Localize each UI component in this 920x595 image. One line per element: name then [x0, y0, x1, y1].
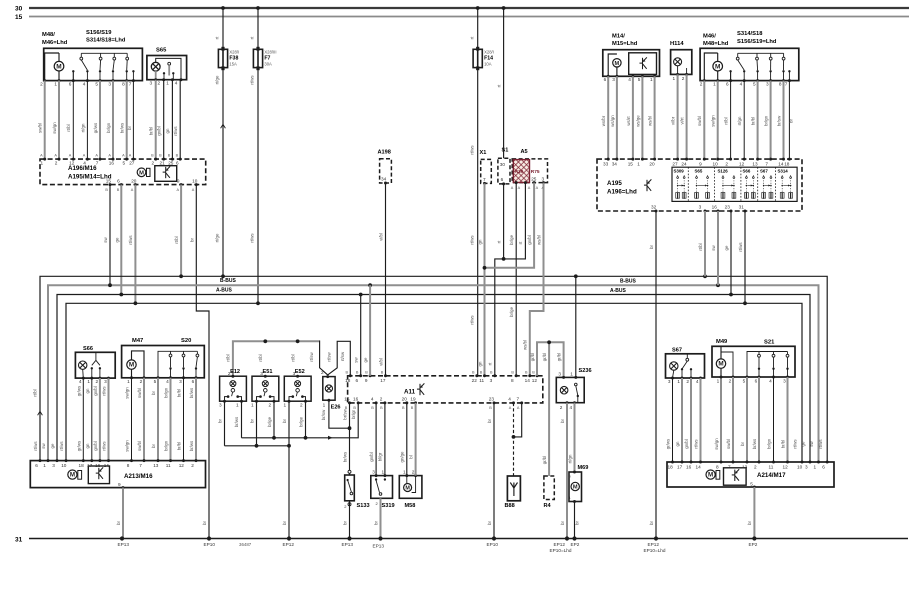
svg-text:15: 15	[106, 178, 112, 183]
svg-text:A: A	[536, 186, 539, 190]
wire A195 pin23 ge to bus line3	[730, 211, 732, 295]
svg-text:5: 5	[753, 81, 756, 86]
svg-text:gn/bl: gn/bl	[93, 441, 98, 451]
svg-text:M: M	[715, 63, 720, 70]
svg-text:rt/ws: rt/ws	[102, 441, 107, 451]
wires M48 to A196/M16	[44, 81, 46, 160]
svg-text:33: 33	[603, 162, 609, 167]
svg-text:1: 1	[166, 80, 169, 85]
svg-text:gr/bl: gr/bl	[542, 353, 547, 362]
svg-text:EP2: EP2	[571, 542, 580, 547]
svg-text:1: 1	[570, 371, 573, 376]
svg-text:10: 10	[192, 178, 198, 183]
svg-text:17: 17	[380, 378, 386, 383]
fuse F7 30A on connector X28/III	[257, 48, 259, 69]
svg-text:rt/gn: rt/gn	[737, 116, 742, 125]
A195 top pins	[607, 158, 610, 161]
svg-text:gr/ws: gr/ws	[93, 122, 98, 133]
svg-text:A198: A198	[378, 149, 391, 155]
svg-text:2: 2	[152, 160, 155, 165]
wire E26 pin2 to A11 pin18	[328, 341, 351, 376]
wire below fuse F38	[222, 69, 224, 276]
svg-text:14: 14	[525, 378, 531, 383]
svg-text:M46=Lhd: M46=Lhd	[42, 40, 68, 46]
svg-text:br: br	[202, 521, 207, 525]
svg-text:3: 3	[558, 371, 561, 376]
svg-text:br/bl: br/bl	[148, 127, 153, 136]
svg-text:E12: E12	[230, 369, 240, 375]
wire S236 pin2 br to ground EP12	[566, 403, 568, 539]
bus line3 ge from A213 pin3 to A214 pin3	[57, 295, 810, 463]
svg-text:30: 30	[500, 162, 506, 167]
svg-text:gn/bl: gn/bl	[369, 452, 374, 462]
svg-text:A214/M17: A214/M17	[757, 472, 786, 479]
svg-text:br/bl: br/bl	[750, 117, 755, 126]
svg-text:br/bl: br/bl	[177, 389, 182, 398]
svg-text:4: 4	[628, 77, 631, 82]
switch S133 hood contact	[349, 403, 351, 475]
svg-text:rt/gn: rt/gn	[567, 454, 572, 463]
wire E12 pin3 br to collect rail	[224, 401, 226, 446]
wire S236 pin4 rt/gn to motor M69	[574, 403, 576, 472]
svg-text:gn/bl: gn/bl	[93, 386, 98, 396]
svg-text:10A: 10A	[484, 62, 492, 67]
svg-text:1: 1	[677, 379, 680, 384]
svg-text:ws/bl: ws/bl	[536, 235, 541, 245]
svg-text:A: A	[517, 406, 520, 410]
switch S65 mirror select	[147, 56, 187, 80]
svg-text:sw/bl: sw/bl	[137, 441, 142, 451]
svg-text:1: 1	[650, 77, 653, 82]
svg-text:rt/bl: rt/bl	[174, 236, 179, 243]
wires M47/S20 to A213	[131, 378, 133, 461]
svg-text:gn: gn	[165, 128, 170, 133]
wires S65 to A196/M16	[155, 80, 157, 159]
wire E51 pin2 br/ge	[273, 401, 275, 438]
svg-text:25: 25	[531, 177, 537, 182]
wires H114 to A195	[677, 74, 679, 159]
connector S1 ignition switch	[498, 158, 510, 184]
svg-text:2: 2	[140, 379, 143, 384]
svg-text:B: B	[353, 406, 356, 410]
svg-text:R39: R39	[515, 169, 524, 175]
svg-text:9: 9	[365, 378, 368, 383]
svg-text:br: br	[116, 521, 121, 525]
svg-text:17: 17	[87, 463, 93, 468]
svg-text:2: 2	[191, 463, 194, 468]
svg-text:2: 2	[228, 371, 231, 376]
svg-text:B: B	[176, 153, 179, 157]
wire M69 pin1 br to ground EP2	[574, 502, 576, 539]
svg-text:br/gr: br/gr	[351, 409, 356, 419]
svg-text:16: 16	[686, 465, 692, 470]
svg-text:4: 4	[79, 379, 82, 384]
wire A196 pin15 sw to bus line2	[109, 185, 111, 286]
chevron on bus drop wire	[38, 411, 43, 415]
svg-text:S314: S314	[778, 169, 789, 174]
svg-text:rt/bl: rt/bl	[698, 243, 703, 250]
wires S67 to A214	[672, 378, 674, 462]
svg-text:S67: S67	[760, 169, 768, 174]
svg-text:3: 3	[490, 378, 493, 383]
wire S319 pin2 to ground EP13	[380, 498, 382, 538]
ground rail terminal-31	[29, 538, 908, 540]
svg-text:br/gn: br/gn	[106, 122, 111, 133]
wires A11 pins 20,19 to M58	[406, 403, 408, 476]
bus junction dots	[179, 274, 183, 278]
svg-text:8: 8	[127, 463, 130, 468]
svg-text:6: 6	[176, 160, 179, 165]
svg-text:B: B	[411, 406, 414, 410]
svg-text:ws/rt: ws/rt	[626, 116, 631, 126]
svg-text:EP10: EP10	[204, 542, 216, 547]
ground junctions and labels	[120, 536, 124, 540]
svg-text:rt/bl: rt/bl	[723, 117, 728, 124]
lamp E12 front interior light	[220, 376, 247, 401]
svg-text:sw/gn: sw/gn	[125, 440, 130, 452]
svg-text:M69: M69	[578, 465, 589, 471]
svg-text:7: 7	[517, 397, 520, 402]
svg-text:E51: E51	[263, 369, 273, 375]
svg-text:17: 17	[677, 465, 683, 470]
svg-text:18: 18	[784, 162, 790, 167]
A195 bottom pins	[655, 210, 658, 213]
svg-text:A213/M16: A213/M16	[124, 473, 153, 480]
svg-text:14: 14	[104, 463, 110, 468]
svg-text:EP10=Lhd: EP10=Lhd	[644, 548, 666, 553]
svg-text:E52: E52	[295, 369, 305, 375]
svg-text:A: A	[108, 153, 111, 157]
wire rail30 to S1 pin30	[502, 6, 506, 10]
svg-text:EP12: EP12	[648, 542, 660, 547]
svg-text:ge: ge	[801, 441, 806, 446]
svg-text:1: 1	[323, 402, 326, 407]
svg-text:B: B	[159, 153, 162, 157]
wires M14 to A195	[607, 76, 609, 159]
wire A11 pin23 br to ground EP10	[493, 403, 495, 539]
svg-text:X1: X1	[480, 150, 487, 156]
svg-text:M: M	[129, 362, 134, 369]
svg-text:rt/bl: rt/bl	[290, 354, 295, 361]
svg-text:gn/bl: gn/bl	[684, 439, 689, 449]
svg-text:A: A	[122, 153, 125, 157]
motor M47 with switch S20 window lifter rear left	[122, 346, 205, 378]
svg-text:rt/ws: rt/ws	[33, 441, 38, 451]
svg-text:7: 7	[483, 177, 486, 182]
svg-text:rt/gn: rt/gn	[80, 123, 85, 132]
wire A195 pin31 rt/ws to bus line4	[744, 211, 746, 303]
wire A11 pin4 dashed to antenna B88	[513, 403, 515, 476]
svg-text:5: 5	[638, 77, 641, 82]
svg-text:A: A	[518, 186, 521, 190]
svg-text:1: 1	[127, 379, 130, 384]
wire from rail 30 to fuse F38	[221, 6, 225, 10]
svg-text:6: 6	[755, 378, 758, 383]
motor M49 with switch S21 window lifter rear right	[712, 346, 795, 377]
wires M46/S314 to A195	[703, 81, 705, 160]
A213 bottom pin 9 wire br to ground EP13	[122, 486, 125, 489]
control unit A11 central locking	[348, 376, 543, 403]
svg-text:br: br	[740, 442, 745, 446]
A11 bottom pins	[348, 401, 351, 404]
A196 top pins	[43, 158, 46, 161]
svg-text:X28/III: X28/III	[264, 50, 276, 55]
svg-text:X28/I: X28/I	[229, 50, 239, 55]
svg-text:S1: S1	[502, 148, 509, 154]
svg-text:rt/sw: rt/sw	[309, 352, 314, 362]
svg-text:EP12: EP12	[283, 542, 295, 547]
svg-text:gr/bl: gr/bl	[530, 353, 535, 362]
svg-text:M48/: M48/	[42, 32, 55, 38]
svg-text:M58: M58	[405, 503, 416, 509]
svg-text:15: 15	[628, 162, 634, 167]
svg-text:br: br	[189, 238, 194, 242]
A11 top pins	[349, 374, 352, 377]
svg-text:1: 1	[717, 378, 720, 383]
svg-text:A196=Lhd: A196=Lhd	[607, 189, 637, 196]
svg-text:br/ws: br/ws	[234, 416, 239, 427]
wire terminal-15 rail	[29, 16, 909, 18]
svg-text:sw/bl: sw/bl	[697, 116, 702, 126]
svg-text:sw: sw	[353, 356, 358, 362]
svg-text:M: M	[718, 361, 723, 368]
svg-text:1: 1	[54, 81, 57, 86]
svg-text:20: 20	[649, 162, 655, 167]
svg-text:rt/ws: rt/ws	[694, 439, 699, 449]
wire below fuse F14	[477, 69, 479, 376]
svg-text:16: 16	[95, 463, 101, 468]
wire A195 pin32 br to ground EP12	[655, 211, 657, 539]
svg-text:S236: S236	[579, 368, 592, 374]
svg-text:24: 24	[681, 162, 687, 167]
svg-text:M47: M47	[132, 338, 143, 344]
svg-text:16: 16	[712, 205, 718, 210]
svg-text:2: 2	[560, 405, 563, 410]
svg-text:1: 1	[41, 160, 44, 165]
svg-text:S66: S66	[83, 346, 93, 352]
svg-text:A5: A5	[521, 149, 528, 155]
svg-text:A: A	[95, 153, 98, 157]
svg-text:B-BUS: B-BUS	[620, 278, 636, 284]
svg-text:br/ws: br/ws	[189, 387, 194, 398]
wires S66 to A213	[82, 378, 84, 461]
svg-text:rt/ws: rt/ws	[469, 145, 474, 155]
svg-text:bl/gr: bl/gr	[378, 452, 383, 461]
switch S66 mirror select left	[75, 352, 115, 378]
svg-text:3: 3	[783, 378, 786, 383]
svg-text:br/gn: br/gn	[763, 115, 768, 126]
svg-text:8: 8	[716, 465, 719, 470]
svg-text:1: 1	[673, 76, 676, 81]
svg-text:12: 12	[179, 463, 185, 468]
svg-text:ws/bl: ws/bl	[648, 116, 653, 126]
lamp E52 rear interior light right	[284, 376, 311, 401]
svg-text:S314/S18=Lhd: S314/S18=Lhd	[86, 38, 126, 44]
svg-text:A-BUS: A-BUS	[216, 288, 232, 294]
svg-text:sw/bl: sw/bl	[726, 439, 731, 449]
svg-text:br: br	[217, 419, 222, 423]
svg-text:12: 12	[783, 465, 789, 470]
svg-text:6: 6	[117, 178, 120, 183]
svg-text:br/ws: br/ws	[342, 451, 347, 462]
svg-text:11: 11	[166, 463, 171, 468]
svg-text:5: 5	[750, 481, 753, 486]
lamp E26 glovebox light	[323, 377, 335, 401]
svg-text:gr/ws: gr/ws	[76, 440, 81, 451]
svg-text:br: br	[649, 521, 654, 525]
svg-text:br: br	[282, 419, 287, 423]
svg-text:ge: ge	[50, 443, 55, 448]
svg-text:S309: S309	[674, 169, 685, 174]
svg-text:rt/bl: rt/bl	[226, 354, 231, 361]
svg-text:rt/ws: rt/ws	[250, 233, 255, 243]
svg-text:6: 6	[69, 81, 72, 86]
wire A11 pin12 to S236 pin3 rail	[537, 342, 564, 377]
svg-text:ge: ge	[724, 245, 729, 250]
wire X1 pin7 gn down to A11 pin11	[483, 182, 486, 185]
svg-text:3: 3	[104, 379, 107, 384]
A214 bottom pin5 wire br to ground EP2	[753, 486, 756, 489]
wire A196 pin9 rt/bl to bus line1	[180, 185, 182, 277]
svg-text:br: br	[151, 391, 156, 395]
wire S133 to ground EP13	[349, 501, 351, 539]
svg-text:S66: S66	[743, 169, 751, 174]
svg-text:6: 6	[192, 379, 195, 384]
svg-text:M: M	[405, 486, 410, 492]
svg-text:22: 22	[472, 378, 478, 383]
motor M14 / M15=Lhd mirror passenger door	[603, 50, 660, 77]
svg-text:6: 6	[35, 463, 38, 468]
svg-text:br/sw: br/sw	[342, 408, 347, 419]
wire below fuse F7	[257, 69, 259, 303]
svg-text:30A: 30A	[264, 62, 272, 67]
wire A5 br/ge to A11 pin8	[515, 181, 518, 184]
connector X1	[481, 159, 492, 183]
svg-text:gr/bl: gr/bl	[542, 456, 547, 465]
svg-text:S126: S126	[718, 169, 729, 174]
svg-text:2: 2	[55, 160, 58, 165]
svg-text:A: A	[54, 153, 57, 157]
svg-text:34: 34	[612, 162, 618, 167]
svg-text:13: 13	[742, 465, 748, 470]
wire E26 pin1 to S133 net	[329, 400, 350, 428]
svg-text:23: 23	[489, 397, 495, 402]
svg-text:br/ge: br/ge	[509, 234, 514, 245]
svg-text:EP10=Lhd: EP10=Lhd	[550, 548, 572, 553]
control unit A213/M16 mirror driver side	[30, 461, 205, 488]
svg-text:M: M	[70, 472, 75, 479]
svg-text:S65: S65	[156, 48, 167, 54]
svg-text:sw/gn: sw/gn	[711, 115, 716, 127]
svg-text:10: 10	[797, 465, 803, 470]
svg-text:3: 3	[612, 77, 615, 82]
svg-text:M: M	[56, 63, 61, 70]
svg-text:12: 12	[69, 160, 75, 165]
svg-text:36487: 36487	[239, 542, 252, 547]
svg-text:br: br	[151, 444, 156, 448]
wire from rail 30 to fuse F14	[476, 6, 480, 10]
svg-text:M: M	[573, 485, 578, 491]
svg-text:br/bl: br/bl	[781, 440, 786, 449]
svg-text:EP13: EP13	[373, 543, 385, 548]
wire A5 gn/bl bends left joins X1 wire	[485, 183, 535, 268]
svg-text:bl: bl	[408, 455, 413, 458]
svg-text:8: 8	[511, 378, 514, 383]
svg-text:ws/gn: ws/gn	[610, 115, 615, 127]
svg-text:4: 4	[508, 397, 511, 402]
svg-text:gn: gn	[477, 239, 482, 244]
svg-text:3: 3	[766, 81, 769, 86]
collect rail br/ws to A11 pin16	[242, 403, 359, 438]
svg-text:A-BUS: A-BUS	[610, 288, 626, 294]
svg-text:3: 3	[805, 465, 808, 470]
svg-text:EP13: EP13	[118, 542, 130, 547]
svg-text:15: 15	[344, 397, 350, 402]
svg-text:2: 2	[725, 162, 728, 167]
svg-text:21: 21	[160, 160, 166, 165]
motor M58 fuel flap lock	[399, 476, 422, 499]
svg-text:rt/ws: rt/ws	[793, 439, 798, 449]
svg-text:M14/: M14/	[612, 34, 625, 40]
svg-text:rt/ws: rt/ws	[250, 75, 255, 85]
bus line2 sw (gray) from A213 pin1 to A214 pin1	[48, 285, 819, 462]
wire A196 pin20 rt/ws to bus line4	[134, 185, 136, 304]
svg-text:7: 7	[129, 81, 132, 86]
svg-text:1: 1	[403, 469, 406, 474]
wire E51 pin1 br	[256, 401, 258, 446]
svg-text:27: 27	[129, 160, 135, 165]
svg-text:19: 19	[410, 397, 416, 402]
svg-text:S67: S67	[672, 348, 682, 354]
svg-text:6: 6	[356, 378, 359, 383]
svg-text:18: 18	[668, 465, 674, 470]
svg-text:br: br	[249, 419, 254, 423]
svg-text:5: 5	[154, 379, 157, 384]
svg-text:7: 7	[96, 160, 99, 165]
svg-text:2: 2	[729, 378, 732, 383]
svg-text:1: 1	[382, 469, 385, 474]
svg-text:ws/bl: ws/bl	[523, 340, 528, 350]
resistor R4	[544, 476, 554, 500]
svg-text:ge: ge	[114, 237, 119, 242]
svg-text:br/ge: br/ge	[509, 306, 514, 317]
svg-text:br: br	[487, 419, 492, 423]
svg-text:9: 9	[177, 178, 180, 183]
svg-text:gn/ge: gn/ge	[400, 451, 405, 463]
wire A198 pin34 vi/bl to A11 pin17	[384, 182, 387, 185]
svg-text:3: 3	[372, 469, 375, 474]
wire from rail 30 to fuse F7	[256, 6, 260, 10]
svg-text:X28/I: X28/I	[484, 50, 494, 55]
svg-text:gn: gn	[85, 443, 90, 448]
svg-text:br: br	[747, 521, 752, 525]
svg-text:A: A	[40, 153, 43, 157]
svg-text:5: 5	[123, 160, 126, 165]
svg-text:27: 27	[672, 162, 678, 167]
svg-text:rt/ge: rt/ge	[215, 233, 220, 242]
svg-text:H114: H114	[670, 41, 684, 47]
svg-text:ge: ge	[363, 357, 368, 362]
bus line4 rt/ws from A213 pin10 to A214 pin10	[66, 303, 802, 462]
svg-text:gr/bl: gr/bl	[556, 353, 561, 362]
wire A11 pin9 to bus line2	[369, 285, 371, 376]
svg-text:sw/gn: sw/gn	[714, 438, 719, 450]
svg-text:S21: S21	[764, 339, 775, 345]
svg-text:rt/ws: rt/ws	[102, 386, 107, 396]
svg-text:rt/ws: rt/ws	[59, 441, 64, 451]
svg-text:2: 2	[40, 81, 43, 86]
svg-text:2: 2	[700, 81, 703, 86]
